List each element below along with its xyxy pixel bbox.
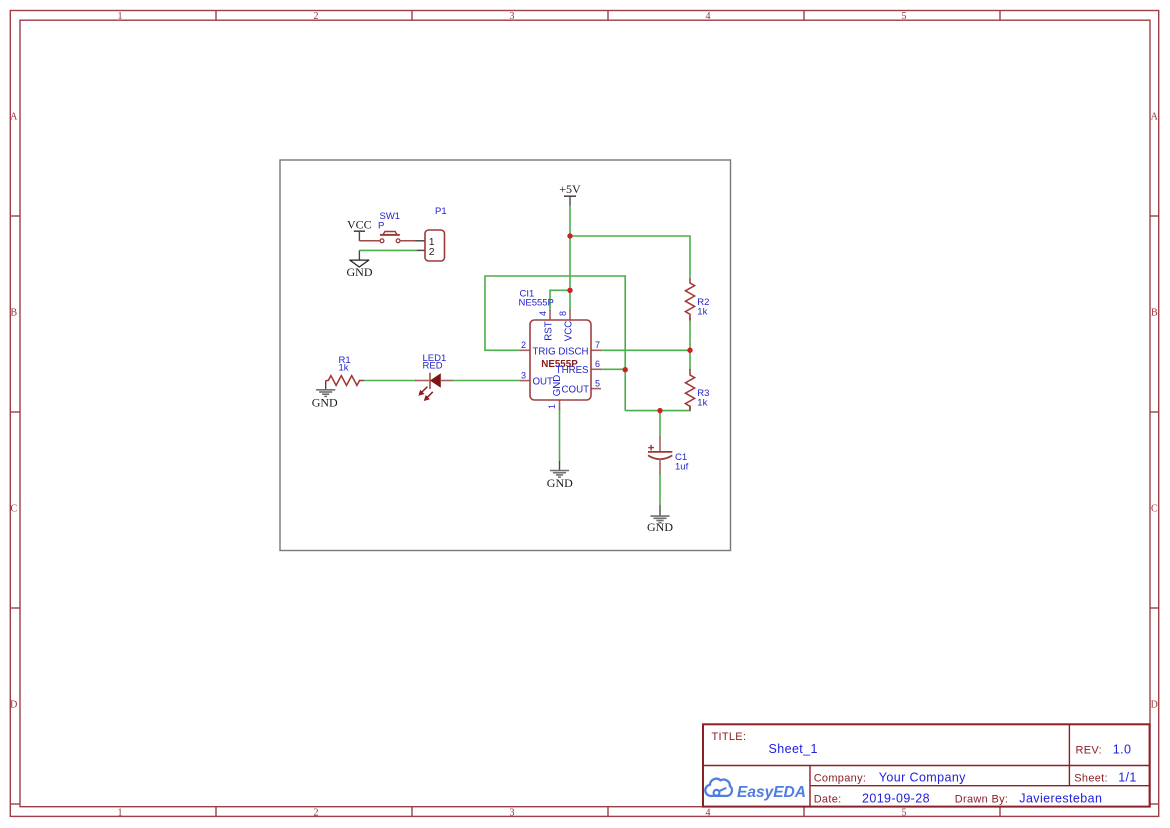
svg-text:COUT: COUT xyxy=(562,384,590,395)
power +5V xyxy=(559,182,581,206)
svg-text:4: 4 xyxy=(706,11,711,22)
svg-text:2: 2 xyxy=(521,340,526,350)
svg-text:2: 2 xyxy=(314,807,319,818)
capacitor C1 polarized xyxy=(648,436,689,474)
wire THRES to vertical xyxy=(600,368,625,370)
svg-text:1uf: 1uf xyxy=(675,461,689,472)
svg-text:Your Company: Your Company xyxy=(879,771,966,785)
svg-text:TITLE:: TITLE: xyxy=(712,731,747,743)
svg-text:2: 2 xyxy=(429,246,435,258)
svg-text:5: 5 xyxy=(902,807,907,818)
wire RST link to VCC node xyxy=(550,290,570,311)
svg-text:1k: 1k xyxy=(697,307,707,318)
svg-text:1k: 1k xyxy=(697,398,707,409)
svg-text:C: C xyxy=(10,503,17,514)
schematic canvas rectangle xyxy=(280,160,731,551)
EasyEDA logo xyxy=(705,779,806,801)
svg-text:REV:: REV: xyxy=(1076,745,1102,757)
svg-text:4: 4 xyxy=(706,807,711,818)
svg-text:D: D xyxy=(10,699,17,710)
ground earth under C1 xyxy=(647,506,673,534)
wire TRIG loop to THRES vertical xyxy=(485,276,625,411)
junction nodes xyxy=(567,233,692,413)
wire node to C1 top xyxy=(659,411,661,437)
svg-text:OUT: OUT xyxy=(533,376,554,387)
svg-text:3: 3 xyxy=(510,11,515,22)
svg-text:GND: GND xyxy=(547,476,573,490)
svg-text:RED: RED xyxy=(423,360,443,371)
title block xyxy=(703,724,1150,806)
svg-text:EasyEDA: EasyEDA xyxy=(737,784,806,801)
resistor R2 xyxy=(685,279,709,321)
svg-text:4: 4 xyxy=(538,311,548,316)
label CI1 NE555P xyxy=(519,288,554,308)
svg-text:Javieresteban: Javieresteban xyxy=(1019,792,1102,806)
connector P1 xyxy=(416,230,445,261)
wire R2 bottom to R3 top xyxy=(689,317,691,370)
svg-text:GND: GND xyxy=(347,265,373,279)
svg-text:B: B xyxy=(1151,307,1158,318)
ground triangle under VCC xyxy=(347,250,373,278)
svg-text:3: 3 xyxy=(510,807,515,818)
svg-text:Sheet_1: Sheet_1 xyxy=(769,742,818,756)
svg-text:B: B xyxy=(10,307,17,318)
wire +5V to R2 top xyxy=(570,236,690,279)
svg-text:Sheet:: Sheet: xyxy=(1074,773,1108,785)
svg-text:C: C xyxy=(1151,503,1158,514)
ground earth under IC xyxy=(547,461,573,490)
svg-text:DISCH: DISCH xyxy=(558,346,588,357)
wire C1 bottom to GND xyxy=(659,474,661,507)
svg-text:2: 2 xyxy=(314,11,319,22)
svg-text:1.0: 1.0 xyxy=(1113,743,1132,757)
svg-text:5: 5 xyxy=(595,378,600,388)
wire SW1 to P1 pin1 xyxy=(400,240,417,242)
net label VCC xyxy=(347,218,372,241)
switch SW1 pushbutton xyxy=(380,232,400,243)
svg-text:P1: P1 xyxy=(435,206,447,217)
svg-text:A: A xyxy=(10,111,18,122)
svg-text:A: A xyxy=(1151,111,1159,122)
svg-text:7: 7 xyxy=(595,340,600,350)
wire LED1 to pin3 OUT xyxy=(452,380,521,382)
wire +5V rail down to VCC pin xyxy=(569,205,571,311)
pin names xyxy=(533,321,590,397)
svg-text:VCC: VCC xyxy=(563,321,574,341)
wire R1 to LED1 xyxy=(364,380,417,382)
svg-text:8: 8 xyxy=(558,311,568,316)
svg-text:6: 6 xyxy=(595,359,600,369)
svg-text:Date:: Date: xyxy=(814,794,842,806)
svg-text:1/1: 1/1 xyxy=(1118,771,1137,785)
LED LED1 xyxy=(415,353,453,400)
svg-text:GND: GND xyxy=(552,375,563,397)
svg-text:5: 5 xyxy=(902,11,907,22)
svg-text:D: D xyxy=(1151,699,1158,710)
svg-text:2019-09-28: 2019-09-28 xyxy=(862,792,930,806)
svg-text:1: 1 xyxy=(118,807,123,818)
svg-text:Drawn By:: Drawn By: xyxy=(955,794,1008,806)
svg-text:1: 1 xyxy=(547,404,557,409)
svg-text:+5V: +5V xyxy=(559,182,581,196)
svg-text:NE555P: NE555P xyxy=(519,297,554,308)
svg-text:3: 3 xyxy=(521,370,526,380)
svg-text:TRIG: TRIG xyxy=(533,346,556,357)
wire R3 bottom to C1 node xyxy=(625,406,690,411)
svg-text:THRES: THRES xyxy=(556,365,589,376)
pin numbers xyxy=(521,311,600,409)
svg-text:Company:: Company: xyxy=(814,773,867,785)
ground earth at R1 xyxy=(312,381,338,410)
wire DISCH to R2/R3 node xyxy=(600,349,690,351)
svg-text:1k: 1k xyxy=(339,363,349,374)
svg-text:GND: GND xyxy=(647,520,673,534)
svg-text:P: P xyxy=(378,221,384,232)
resistor R1 xyxy=(326,355,364,385)
wire VCC to SW1 xyxy=(359,240,380,242)
svg-text:GND: GND xyxy=(312,396,338,410)
wire P1 pin2 to GND xyxy=(359,249,417,251)
svg-text:VCC: VCC xyxy=(347,218,372,232)
svg-text:RST: RST xyxy=(544,321,555,340)
wire GND pin1 down xyxy=(559,409,561,462)
op-amp/IC U CI1 NE555P xyxy=(520,310,601,410)
svg-text:1: 1 xyxy=(118,11,123,22)
resistor R3 xyxy=(685,369,709,411)
